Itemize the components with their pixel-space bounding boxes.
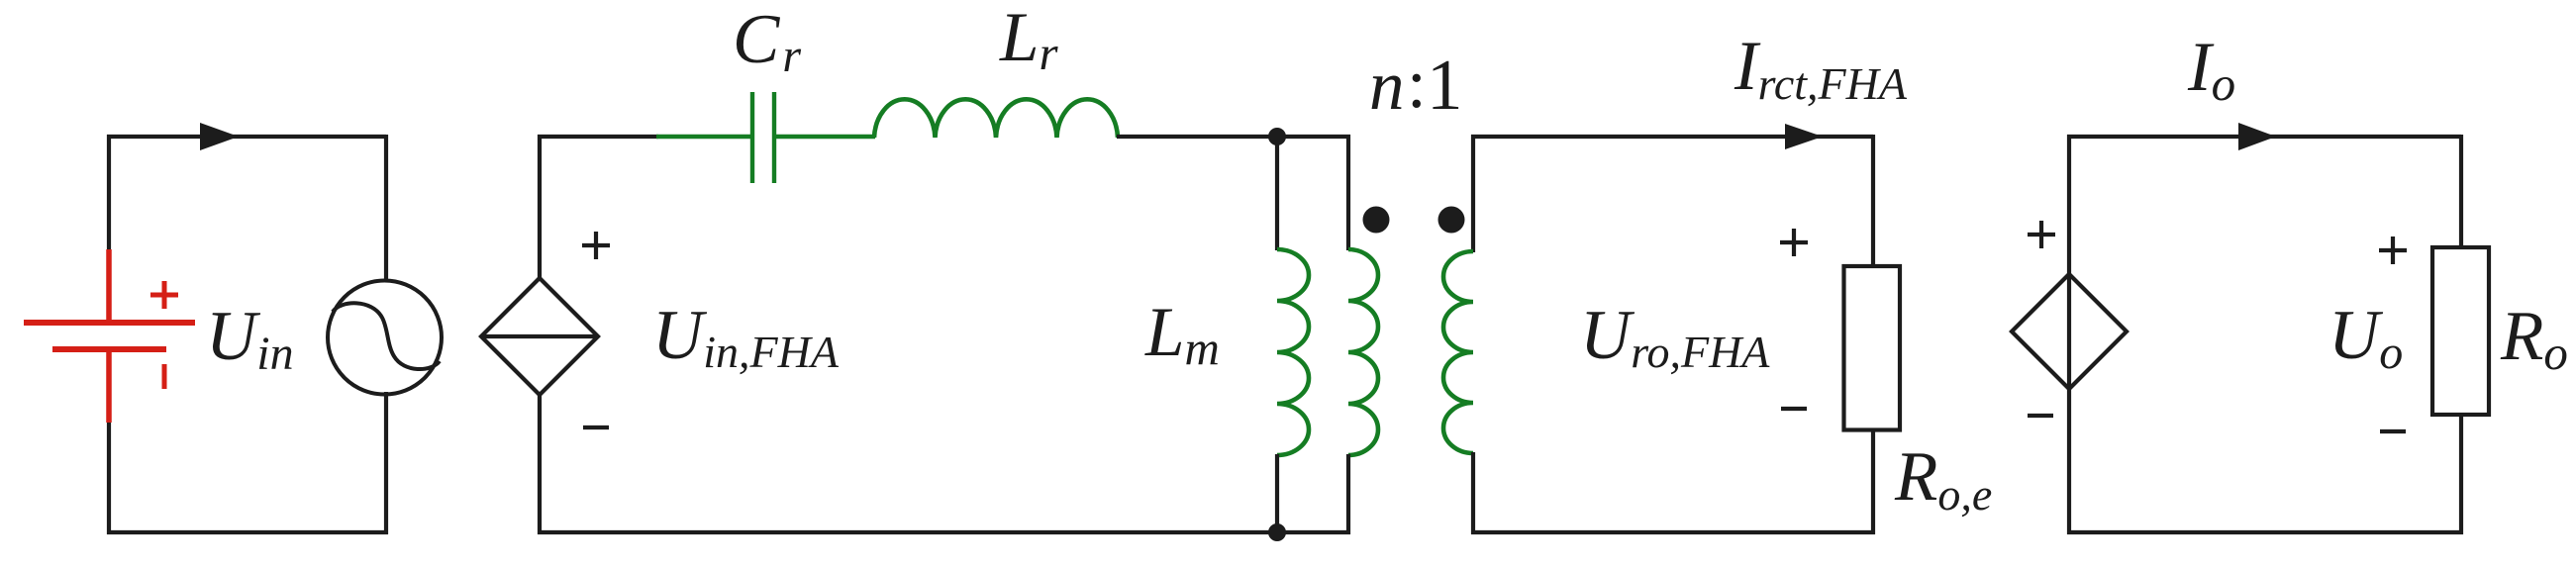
wire loop1 bottom xyxy=(107,530,388,534)
svg-text:Uin,FHA: Uin,FHA xyxy=(652,297,840,377)
wire loop4 bottom xyxy=(2067,530,2463,534)
wire loop3 right upper xyxy=(1871,135,1875,268)
transformer T1 primary lead upper xyxy=(1346,135,1350,250)
wire loop2 bottom xyxy=(538,530,1350,534)
polarity plus E1 xyxy=(582,232,610,259)
wire loop1 right upper xyxy=(384,135,388,281)
dependent source F1 diamond xyxy=(2012,274,2127,389)
battery V1 positive plate xyxy=(24,320,195,326)
wire loop4 left xyxy=(2067,135,2071,534)
wire green cap left xyxy=(656,135,750,140)
transformer T1 secondary dot xyxy=(1438,207,1465,234)
wire loop4 top xyxy=(2067,135,2461,139)
svg-text:Uo: Uo xyxy=(2328,297,2403,379)
wire loop1 top xyxy=(107,135,386,139)
svg-text:Lm: Lm xyxy=(1144,294,1220,375)
inductor Lm coil xyxy=(1277,249,1309,455)
transformer T1 secondary lead upper xyxy=(1471,135,1475,252)
svg-text:Irct,FHA: Irct,FHA xyxy=(1734,28,1908,109)
svg-text:Ro: Ro xyxy=(2500,298,2568,380)
wire loop2 top black left xyxy=(538,135,658,139)
arrow current Irct xyxy=(1785,124,1823,149)
svg-text:n: n xyxy=(1369,47,1405,125)
svg-text:1: 1 xyxy=(1427,45,1463,125)
dependent source E1 diamond xyxy=(481,278,598,395)
wire loop3 right lower xyxy=(1871,431,1875,534)
transformer T1 secondary winding xyxy=(1443,251,1473,453)
polarity minus Uro xyxy=(1781,407,1807,411)
ac source G1 circle xyxy=(328,281,442,395)
capacitor Cr right plate xyxy=(772,92,776,183)
wire green cap right xyxy=(776,135,875,140)
battery V1 red lead lower xyxy=(106,349,112,423)
polarity minus Ro xyxy=(2380,429,2406,433)
polarity minus E1 xyxy=(583,426,609,429)
svg-text:Lr: Lr xyxy=(999,0,1059,80)
polarity plus F1 xyxy=(2028,221,2055,248)
svg-text::: : xyxy=(1407,46,1427,123)
wire loop3 top xyxy=(1471,135,1873,139)
wire loop4 right lower xyxy=(2459,414,2463,534)
polarity minus F1 xyxy=(2028,414,2053,418)
transformer T1 primary lead lower xyxy=(1346,454,1350,534)
arrow current Io xyxy=(2238,123,2276,150)
svg-text:Cr: Cr xyxy=(733,1,801,82)
wire loop2 left lower xyxy=(538,393,542,534)
resistor Ro body xyxy=(2432,247,2489,415)
battery V1 minus tick xyxy=(162,364,167,389)
dependent source E1 chord xyxy=(481,334,598,338)
svg-text:Io: Io xyxy=(2187,29,2235,111)
inductor Lr xyxy=(874,99,1118,138)
wire loop2 left upper xyxy=(538,135,542,280)
wire loop3 bottom xyxy=(1471,530,1875,534)
polarity plus Uro xyxy=(1780,229,1808,256)
resistor Roe body xyxy=(1844,266,1901,430)
ac source G1 sine xyxy=(333,303,440,369)
battery V1 red lead upper xyxy=(24,249,195,423)
transformer T1 primary dot xyxy=(1363,207,1390,234)
wire loop1 left upper black xyxy=(107,135,111,250)
wire loop2 top black right xyxy=(1117,135,1350,139)
capacitor Cr left plate xyxy=(750,92,754,183)
polarity plus Ro xyxy=(2379,237,2407,264)
svg-text:Uin: Uin xyxy=(206,298,294,380)
battery V1 negative plate xyxy=(52,346,166,352)
wire loop1 left lower black xyxy=(107,422,111,534)
svg-text:Uro,FHA: Uro,FHA xyxy=(1580,297,1770,377)
transformer T1 primary winding xyxy=(1348,249,1378,455)
transformer T1 secondary lead lower xyxy=(1471,452,1475,534)
wire loop1 right lower xyxy=(384,392,388,534)
battery V1 plus sign xyxy=(150,281,178,309)
svg-text:Ro,e: Ro,e xyxy=(1894,438,1992,520)
junction node top xyxy=(1268,128,1286,145)
junction node bottom xyxy=(1268,523,1286,541)
wire loop4 right upper xyxy=(2459,135,2463,248)
inductor Lm lead lower xyxy=(1275,454,1279,532)
inductor Lm lead upper xyxy=(1275,137,1279,250)
arrow current loop1 xyxy=(200,123,239,150)
